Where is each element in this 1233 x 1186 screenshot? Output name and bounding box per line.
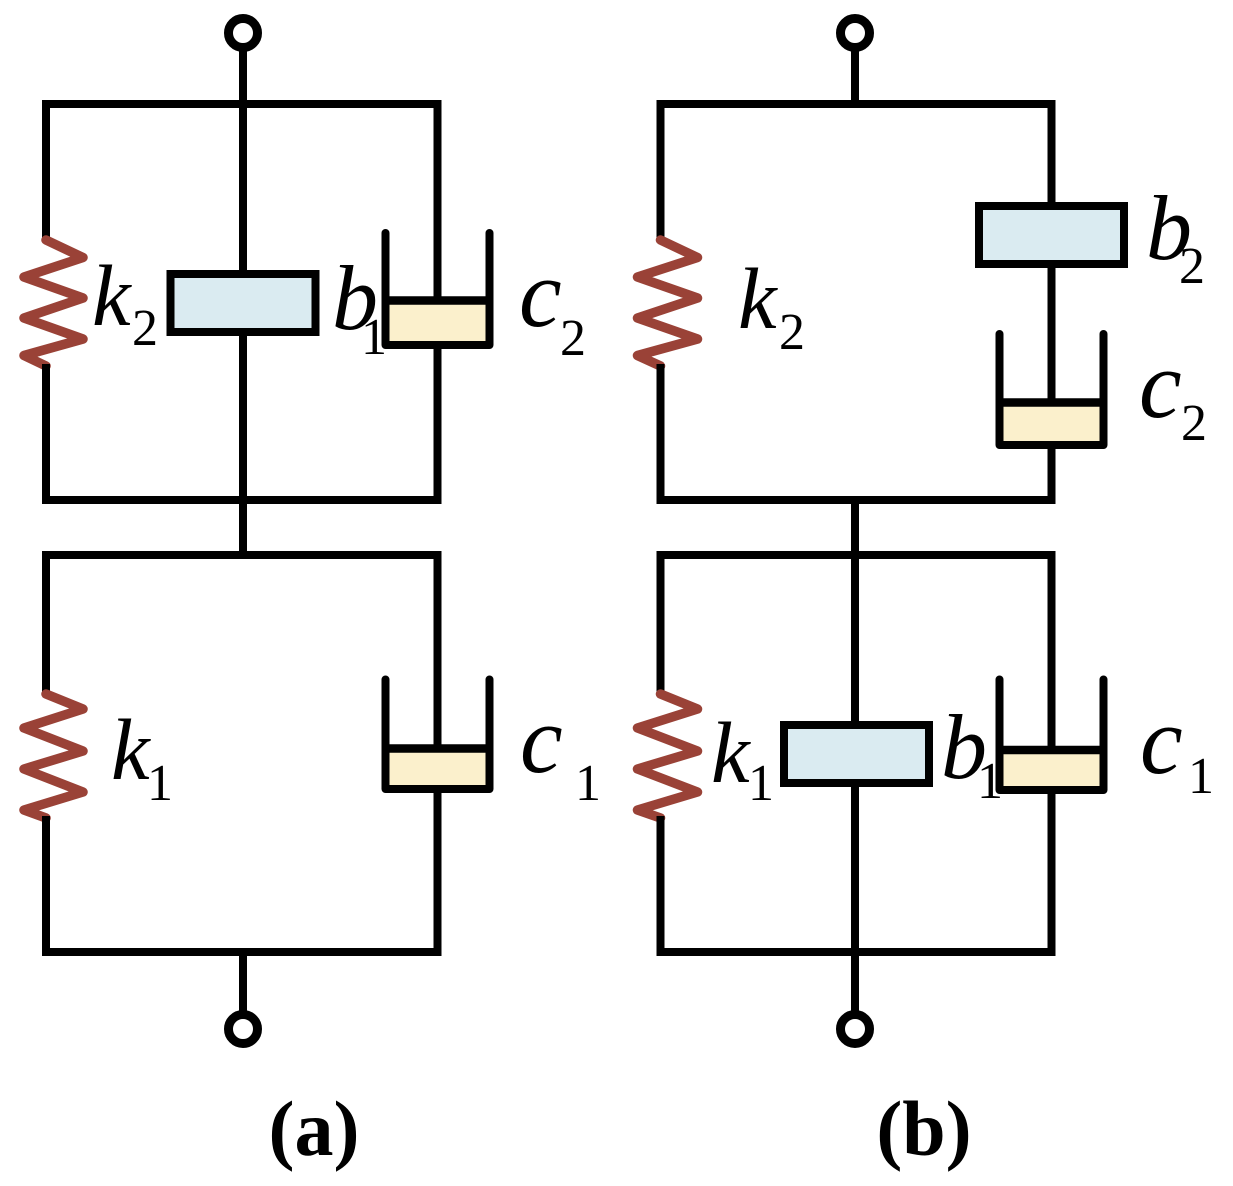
friction element b1 (a) bbox=[171, 274, 316, 332]
wire: upper-left rail above spring k2 (b) bbox=[657, 104, 665, 242]
wire: upper-left rail above spring k1 (b) bbox=[657, 555, 665, 696]
svg-text:1: 1 bbox=[977, 753, 1003, 810]
wire: upper-left rail segment above spring k2 (a) bbox=[42, 104, 50, 242]
svg-text:c: c bbox=[520, 686, 563, 793]
wire: bottom rail of lower cell (b) bbox=[657, 948, 1056, 956]
wire: lower-left rail below spring k1 (b) bbox=[657, 816, 665, 952]
wire: bottom rail of upper cell (a) bbox=[42, 496, 442, 504]
spring k1 (a) bbox=[24, 694, 83, 818]
wire: top rail of lower cell (a) bbox=[42, 551, 442, 559]
wire: middle branch from b1 (a) down through bottom rail to lower cell bbox=[239, 334, 247, 555]
terminal T2a (bottom of model a) bbox=[229, 1015, 258, 1044]
svg-text:2: 2 bbox=[132, 300, 158, 357]
wire: bottom rail of upper cell (b) bbox=[657, 496, 1056, 504]
wire: upper-left rail above spring k1 (a) bbox=[42, 555, 50, 696]
svg-text:k: k bbox=[92, 247, 132, 344]
spring k2 (b) bbox=[638, 240, 698, 366]
svg-text:c: c bbox=[1140, 687, 1183, 794]
wire: middle branch from b1 (b) to bottom rail bbox=[851, 781, 859, 952]
wire: right rail / piston rod of damper c2 (b) bbox=[1048, 261, 1056, 500]
wire: lower-left rail segment below spring k2 (a) bbox=[42, 364, 50, 500]
wire: top rail of upper cell (b) bbox=[657, 100, 1056, 108]
spring k1 (b) bbox=[638, 694, 698, 818]
wire from bottom rail to terminal T2b (b) bbox=[851, 952, 859, 1012]
wire: lower-left rail below spring k2 (b) bbox=[657, 364, 665, 500]
wire: right rail / piston rod of damper c1 (b) bbox=[1048, 555, 1056, 952]
svg-text:c: c bbox=[1139, 331, 1182, 438]
wire: lower-left rail below spring k1 (a) bbox=[42, 816, 50, 952]
friction element b1 (b) bbox=[784, 725, 929, 783]
svg-text:(b): (b) bbox=[876, 1085, 971, 1172]
svg-text:1: 1 bbox=[1188, 748, 1214, 805]
svg-text:2: 2 bbox=[1179, 238, 1205, 295]
wire: right rail / piston rod of damper c1 (a) bbox=[434, 555, 442, 952]
wire from terminal T1b to top rail of upper cell (b) bbox=[851, 47, 859, 108]
wire: right rail upper segment into friction element b2 (b) bbox=[1048, 104, 1056, 209]
svg-text:c: c bbox=[519, 240, 562, 347]
svg-text:1: 1 bbox=[748, 755, 774, 812]
svg-text:1: 1 bbox=[147, 755, 173, 812]
wire: bottom rail of lower cell (a) bbox=[42, 948, 442, 956]
svg-text:1: 1 bbox=[575, 755, 601, 812]
damper c1 (b): cup, cream fluid and piston bbox=[1004, 754, 1100, 786]
svg-text:1: 1 bbox=[361, 309, 387, 366]
terminal T2b (bottom of model b) bbox=[841, 1015, 870, 1044]
svg-text:2: 2 bbox=[779, 304, 805, 361]
damper c1 (a): cup, cream fluid and piston bbox=[390, 753, 486, 786]
wire: middle branch upper segment into friction element b1 (a) bbox=[239, 104, 247, 272]
spring k2 (a) bbox=[24, 240, 83, 366]
wire from bottom rail to terminal T2a (a) bbox=[239, 952, 247, 1012]
terminal T1b (top of model b) bbox=[841, 19, 870, 48]
wire from terminal T1a to top rail of upper cell (a) bbox=[239, 47, 247, 108]
svg-text:(a): (a) bbox=[269, 1085, 360, 1172]
svg-text:2: 2 bbox=[560, 310, 586, 367]
terminal T1a (top of model a) bbox=[229, 19, 258, 48]
wire: top rail of upper cell (a) bbox=[42, 100, 442, 108]
svg-text:2: 2 bbox=[1181, 395, 1207, 452]
wire: right rail / piston rod of damper c2 (a) bbox=[434, 104, 442, 500]
wire: top rail of lower cell (b) bbox=[657, 551, 1056, 559]
svg-text:k: k bbox=[711, 704, 751, 801]
wire: middle branch upper segment into friction element b1 (b) bbox=[851, 555, 859, 727]
svg-text:k: k bbox=[738, 250, 778, 347]
friction element b2 (b) bbox=[979, 206, 1124, 264]
svg-text:k: k bbox=[111, 701, 151, 798]
wire: middle link between cells (b) bbox=[851, 500, 859, 559]
damper c2 (b): cup, cream fluid and piston bbox=[1004, 407, 1100, 442]
damper c2 (a): cup, cream fluid and piston bbox=[390, 305, 486, 342]
